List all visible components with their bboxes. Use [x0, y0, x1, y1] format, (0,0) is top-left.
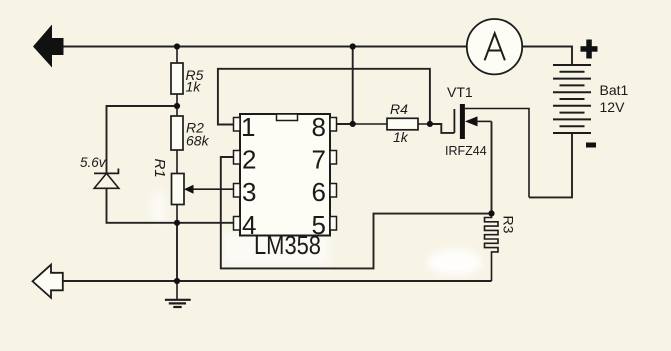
pin 8: [330, 118, 337, 132]
svg-text:1k: 1k: [393, 129, 409, 145]
wire pin2 to R3 node loop: [221, 157, 492, 268]
potentiometer R1: [151, 159, 234, 223]
svg-text:IRFZ44: IRFZ44: [445, 144, 487, 158]
op-amp U1 LM358: [234, 112, 337, 260]
wire top rail: [64, 46, 467, 48]
ammeter PA1: [467, 19, 522, 74]
svg-text:R3: R3: [501, 216, 517, 234]
wire node N1 down to R4 left: [352, 47, 354, 124]
pin 7: [330, 151, 337, 165]
node N8: [488, 210, 494, 216]
pin 6: [330, 184, 337, 198]
node N6: [174, 220, 180, 226]
battery plus mark: [581, 40, 598, 59]
resistor R5: [171, 47, 204, 107]
wire pin8 to node N3: [337, 123, 353, 125]
svg-text:6: 6: [312, 177, 326, 207]
svg-text:Bat1: Bat1: [600, 82, 629, 98]
output terminal arrow plus: [33, 25, 64, 68]
node N5: [427, 121, 433, 127]
wire pin1 feedback to node N4: [218, 69, 430, 125]
svg-text:68k: 68k: [186, 132, 210, 148]
resistor R4: [353, 101, 430, 145]
pin 5: [330, 217, 337, 231]
svg-text:1k: 1k: [186, 79, 202, 95]
wire node N5 to pin4: [177, 222, 234, 224]
svg-text:7: 7: [312, 145, 326, 175]
svg-text:2: 2: [242, 145, 256, 175]
pin 2: [234, 151, 241, 165]
resistor R2: [171, 106, 210, 174]
transistor VT1 IRFZ44: [445, 84, 529, 197]
pin 1: [234, 118, 241, 132]
node N4: [350, 121, 356, 127]
svg-text:1: 1: [241, 112, 255, 142]
svg-text:12V: 12V: [600, 99, 626, 115]
node N2: [350, 43, 356, 49]
svg-text:LM358: LM358: [254, 230, 321, 260]
svg-text:R1: R1: [151, 159, 168, 178]
wire ammeter to battery plus: [523, 47, 573, 65]
battery minus mark: [586, 143, 596, 148]
zener diode VD1 5.6v: [80, 155, 119, 188]
node N3: [174, 103, 180, 109]
node N1: [174, 43, 180, 49]
resistor R3: [485, 213, 517, 281]
battery Bat1 12V: [553, 65, 591, 133]
pin 3: [234, 184, 241, 198]
wire zener top connector: [107, 106, 178, 173]
output terminal arrow minus: [33, 265, 63, 298]
svg-text:R4: R4: [390, 101, 408, 117]
pin 4: [234, 217, 241, 231]
svg-text:8: 8: [312, 112, 326, 142]
ground: [165, 281, 191, 307]
wire battery minus to drain: [529, 133, 572, 197]
svg-text:VT1: VT1: [447, 84, 473, 100]
svg-text:3: 3: [242, 177, 256, 207]
wire R1 bottom to ground node: [176, 223, 178, 281]
wire bottom rail: [64, 280, 492, 282]
wire R4 to gate: [430, 124, 455, 133]
wire zener bottom connector: [107, 188, 178, 223]
svg-text:5.6v: 5.6v: [80, 155, 107, 170]
wire source to R3 node: [491, 121, 493, 213]
node N7: [174, 278, 180, 284]
